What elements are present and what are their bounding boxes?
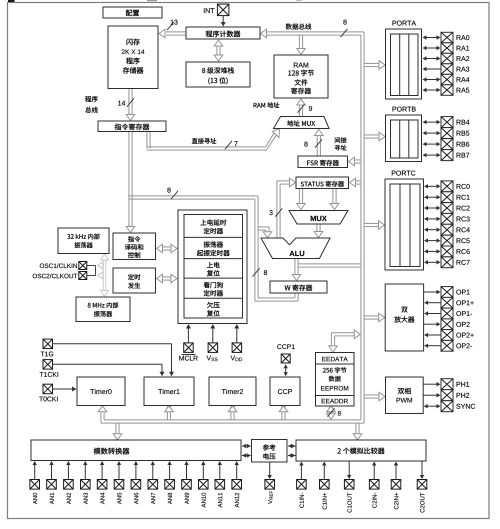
- pin RC3 with wire: [424, 213, 470, 224]
- wire STATUS register to MUX inputs: [297, 189, 339, 210]
- pin AN6 with wire to A/D: [131, 461, 141, 504]
- analog comparators box 2个模拟比较器: [296, 440, 426, 461]
- wire data bus to EEPROM data: [329, 330, 361, 352]
- VSS pin: [207, 343, 218, 361]
- pin AN10 with wire to A/D: [199, 461, 209, 507]
- wire data bus to PORTB: [365, 132, 386, 141]
- wire loop into ALU left input: [258, 227, 272, 238]
- wire W register feedback loop: [255, 196, 298, 301]
- PORTC box: [385, 171, 424, 270]
- T1G pin: [41, 339, 54, 356]
- top edge cut-off text remnants: [8, 0, 302, 2]
- wire direct addressing from instruction register to address MUX: [147, 129, 280, 151]
- wire instruction decode to reset/timer block at y 278.5: [157, 274, 178, 283]
- bus width 8 slash on data bus: [341, 20, 348, 38]
- label data bus 数据总线: [286, 24, 312, 30]
- bus width 3 slash: [269, 208, 282, 216]
- wire data bus to PORTC: [365, 221, 385, 230]
- bus width 13 slash: [167, 20, 178, 31]
- flash program memory 闪存 2K X 14: [108, 26, 158, 89]
- pin RC4 with wire: [424, 224, 470, 235]
- pin RA0 with wire: [423, 32, 470, 43]
- wire T1G to Timer1: [53, 344, 175, 377]
- wire oscillator pins to internal oscillators: [87, 254, 109, 297]
- label program bus 程序总线: [85, 96, 98, 113]
- CCP1 pin: [277, 344, 294, 363]
- bus width 7 slash: [225, 141, 238, 149]
- wire bottom bus to Timer1: [165, 406, 174, 420]
- stack box 8级深堆栈(13位): [186, 62, 250, 87]
- T0CKI pin: [39, 384, 57, 401]
- address MUX trapezoid 地址MUX: [274, 117, 330, 129]
- reset and watchdog timer block: [178, 210, 247, 324]
- pin PH1 with wire: [423, 379, 469, 390]
- pin RC7 with wire: [424, 257, 470, 268]
- pin AN2 with wire to A/D: [64, 461, 74, 504]
- pin C1OUT with wire: [344, 462, 354, 513]
- pin AN8 with wire to A/D: [165, 461, 175, 504]
- pin AN11 with wire to A/D: [215, 461, 225, 507]
- pin C2OUT with wire: [417, 462, 427, 513]
- wires reference voltage to comparators bidirectional: [288, 444, 296, 458]
- wire address MUX to RAM address: [297, 99, 306, 117]
- wire CCP1 pin to CCP box: [284, 364, 288, 376]
- wire program counter to flash memory address bus: [159, 29, 186, 38]
- pin RB5 with wire: [423, 128, 470, 139]
- wire bottom bus to A/D converter: [113, 423, 122, 440]
- wire T0CKI to Timer0: [53, 387, 77, 392]
- wire bottom bus to analog comparators: [353, 423, 362, 440]
- wire bottom bus to EEADDR bidirectional: [327, 406, 336, 420]
- pin RB6 with wire: [423, 139, 470, 150]
- pin OP1 with wire: [424, 287, 470, 298]
- wires A/D to reference voltage bidirectional: [242, 444, 251, 458]
- pin OP1+ with wire: [424, 297, 474, 308]
- wire instruction decode to reset/timer block at y 248.5: [157, 244, 178, 253]
- wire FSR register to address MUX indirect addressing: [315, 130, 324, 157]
- CCP box: [270, 377, 300, 406]
- bus width 8 slash indirect: [304, 139, 322, 147]
- pin AN9 with wire to A/D: [182, 461, 192, 504]
- pin PH2 with wire: [423, 390, 469, 401]
- MCLR pin: [179, 343, 197, 361]
- Timer1 box: [144, 377, 194, 406]
- pin RC0 with wire: [424, 181, 470, 192]
- wire bottom peripheral bus with Timer0 branch: [98, 406, 364, 423]
- 8MHz internal oscillator box: [76, 297, 130, 322]
- wire VDD to reset block: [234, 324, 239, 343]
- wire data bus to two-phase PWM: [365, 392, 386, 401]
- pin OP1- with wire: [424, 308, 472, 319]
- pin OP2- with wire: [424, 340, 472, 351]
- pin AN1 with wire to A/D: [47, 461, 57, 504]
- pin AN4 with wire to A/D: [97, 461, 107, 504]
- PORTB box: [386, 107, 422, 162]
- wire VSS to reset block: [210, 324, 215, 343]
- pin OP2 with wire: [424, 319, 470, 330]
- wire data bus to FSR register: [349, 157, 361, 166]
- wire bottom bus to Timer2: [228, 406, 237, 420]
- label direct address 直接寻址: [192, 138, 216, 144]
- two-phase PWM box 双相PWM: [386, 377, 424, 414]
- STATUS register box: [296, 177, 349, 189]
- RAM file registers box: [274, 55, 328, 98]
- bus width 8 slash on literal bus: [167, 188, 178, 200]
- label RAM address: [254, 102, 280, 108]
- pin RA3 with wire: [423, 64, 470, 75]
- pin RA1 with wire: [423, 43, 470, 54]
- wire data bus to RAM file registers: [297, 36, 306, 55]
- pin C1IN- with wire: [297, 462, 307, 508]
- wire program counter to stack bidirectional: [214, 40, 223, 61]
- OSC1/CLKIN pin: [40, 262, 87, 270]
- ALU: [261, 238, 330, 259]
- wire data bus from program counter down right vertical bus: [261, 29, 365, 423]
- FSR register box: [298, 156, 348, 168]
- pin RB7 with wire: [423, 150, 470, 161]
- pin SYNC with wire: [424, 401, 475, 412]
- wire ALU flags to STATUS register: [277, 178, 296, 238]
- reference voltage box 参考电压: [252, 440, 288, 463]
- pin RA2 with wire: [423, 53, 470, 64]
- INT pin: [204, 4, 229, 16]
- wire literal bus from instruction register: [129, 196, 259, 199]
- wire instruction register to instruction decode: [126, 132, 135, 233]
- pin RC1 with wire: [424, 192, 470, 203]
- VDD pin: [231, 343, 243, 361]
- wire program bus flash to instruction register: [126, 89, 135, 121]
- pin C2IN- with wire: [369, 462, 379, 508]
- wire T1CKI to Timer1: [53, 364, 165, 376]
- instruction register box 指令寄存器: [98, 121, 166, 132]
- A/D converter box 模数转换器: [31, 440, 241, 461]
- pin AN12 with wire to A/D: [232, 461, 242, 507]
- pin AN0 with wire to A/D: [30, 461, 40, 504]
- wire data bus to PORTA: [365, 61, 386, 70]
- pin RA4 with wire: [423, 74, 470, 85]
- T1CKI pin: [40, 360, 58, 377]
- configuration box 配置: [103, 7, 162, 18]
- wire ALU result to W register and data bus: [292, 259, 360, 281]
- pin C2IN+ with wire: [391, 462, 401, 510]
- timing generation box 定时发生: [113, 268, 156, 293]
- label indirect address 间接寻址: [335, 137, 347, 150]
- 32kHz internal oscillator box: [58, 228, 109, 254]
- wire bottom bus to CCP: [279, 406, 288, 420]
- bus width 8 slash on W loop: [253, 268, 268, 276]
- Timer0 box: [77, 377, 125, 406]
- MUX trapezoid: [289, 211, 348, 225]
- pin RC2 with wire: [424, 203, 470, 214]
- pin AN7 with wire to A/D: [148, 461, 158, 504]
- OSC2/CLKOUT pin: [33, 272, 87, 280]
- pin AN3 with wire to A/D: [81, 461, 91, 504]
- pin RC6 with wire: [424, 246, 470, 257]
- wire INT to program counter: [221, 16, 226, 27]
- instruction decode box 指令译码和控制: [113, 233, 156, 260]
- pin OP2+ with wire: [424, 330, 474, 341]
- pin RB4 with wire: [423, 117, 470, 128]
- wire MUX to ALU: [314, 224, 323, 238]
- W register box: [270, 281, 327, 293]
- pin VREF with wire: [265, 462, 275, 504]
- pin RC5 with wire: [424, 235, 470, 246]
- dual amplifier box 双放大器: [385, 284, 423, 351]
- PORTA box: [386, 21, 422, 99]
- data EEPROM block 256字节: [316, 353, 355, 407]
- bus width 8 slash EEADDR: [328, 408, 341, 416]
- pin RA5 with wire: [423, 85, 470, 96]
- wire data bus to dual amplifier: [365, 313, 385, 322]
- bus width 9 slash: [298, 104, 313, 112]
- Timer2 box: [209, 377, 256, 406]
- wire data bus to STATUS register: [350, 178, 361, 187]
- bus width 14 slash: [118, 98, 134, 106]
- program counter box 程序计数器: [186, 27, 260, 39]
- wire MCLR to reset block: [186, 324, 191, 343]
- pin AN5 with wire to A/D: [114, 461, 124, 504]
- pin C1IN+ with wire: [320, 462, 330, 510]
